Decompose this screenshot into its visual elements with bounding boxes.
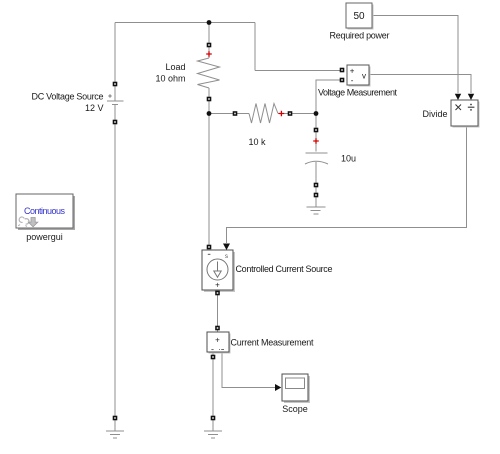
port capacitor top bbox=[314, 128, 319, 133]
svg-text:+: + bbox=[215, 336, 220, 345]
svg-text:Voltage Measurement: Voltage Measurement bbox=[318, 88, 397, 98]
Controlled Current Source block bbox=[202, 250, 235, 292]
Current Measurement block U_I bbox=[207, 332, 231, 354]
wire constant 50 to Divide bbox=[373, 16, 458, 94]
svg-text:powergui: powergui bbox=[26, 232, 63, 242]
port Load bottom bbox=[207, 97, 212, 102]
red polarity plus on 10k bbox=[279, 111, 285, 117]
port 10k left bbox=[233, 111, 238, 116]
port capacitor bottom bbox=[314, 183, 319, 188]
input arrow into Scope bbox=[275, 384, 281, 391]
port VM - bbox=[340, 78, 345, 83]
svg-text:Current Measurement: Current Measurement bbox=[231, 338, 314, 348]
svg-text:Required power: Required power bbox=[330, 31, 390, 41]
svg-text:+: + bbox=[215, 281, 220, 290]
svg-text:Continuous: Continuous bbox=[24, 206, 66, 216]
junction node at load top bbox=[207, 20, 212, 25]
wire top horizontal from DC source to load node and onward to VM + bbox=[115, 23, 340, 71]
svg-text:Scope: Scope bbox=[282, 404, 308, 414]
wire 10k row right lead to cap node bbox=[278, 113, 316, 115]
constant block 50 bbox=[346, 3, 374, 30]
wire CM output to Scope bbox=[222, 352, 275, 388]
resistor R 10k zigzag bbox=[249, 104, 278, 124]
port VM + bbox=[340, 68, 345, 73]
port Load top bbox=[207, 43, 212, 48]
svg-text:DC Voltage Source: DC Voltage Source bbox=[32, 92, 104, 102]
port CM bottom bbox=[211, 355, 216, 360]
port ground G1 bbox=[113, 416, 118, 421]
capacitor C 10u bbox=[305, 153, 328, 164]
wire DC source bottom to left ground bbox=[114, 122, 116, 416]
wire CM minus down to middle ground bbox=[212, 352, 214, 416]
svg-text:50: 50 bbox=[353, 11, 365, 22]
junction node at load bottom / 10k row bbox=[207, 111, 212, 116]
svg-text:s: s bbox=[225, 254, 228, 260]
Divide block bbox=[451, 100, 480, 128]
ground G1 (left, below DC source) bbox=[106, 420, 124, 438]
wire VM output to Divide bbox=[369, 75, 471, 94]
svg-text:10u: 10u bbox=[341, 154, 356, 164]
svg-text:12 V: 12 V bbox=[85, 103, 104, 113]
svg-text:-: - bbox=[351, 76, 354, 85]
port CM top bbox=[215, 326, 220, 331]
wire capacitor bottom lead to ground bbox=[315, 162, 317, 207]
powergui block bbox=[16, 194, 75, 230]
ground G2 (middle, below current measurement) bbox=[204, 420, 222, 438]
svg-text:+: + bbox=[350, 67, 355, 76]
wire Divide output to CCS signal input bbox=[227, 126, 467, 243]
wire load branch vertical upper bbox=[208, 23, 210, 59]
junction node at capacitor top bbox=[314, 111, 319, 116]
resistor Load 10 ohm zigzag bbox=[198, 58, 220, 88]
port DC source top bbox=[113, 82, 118, 87]
port ground G3 bbox=[314, 193, 319, 198]
svg-text:v: v bbox=[362, 72, 366, 81]
svg-text:10 ohm: 10 ohm bbox=[155, 74, 185, 84]
DC source plus sign bbox=[108, 94, 111, 97]
signal input arrow into CCS bbox=[223, 244, 230, 251]
wire CCS bottom to Current Measurement bbox=[217, 290, 219, 332]
port CCS plus (bottom) bbox=[215, 291, 220, 296]
input arrow into Divide divide bbox=[468, 94, 474, 100]
wire 10k row left lead bbox=[209, 113, 249, 115]
Scope block bbox=[282, 374, 310, 403]
red polarity plus on capacitor bbox=[313, 138, 319, 144]
svg-text:Load: Load bbox=[165, 62, 185, 72]
port DC source bottom bbox=[113, 120, 118, 125]
red polarity plus on Load bbox=[206, 51, 212, 57]
Voltage Measurement block U_V bbox=[347, 65, 371, 87]
wire load branch vertical lower down to CCS bbox=[208, 88, 210, 245]
input arrow into Divide x bbox=[455, 94, 461, 100]
svg-text:Controlled Current Source: Controlled Current Source bbox=[236, 264, 333, 274]
wire DC source top lead bbox=[114, 23, 116, 85]
DC voltage source V1 battery symbol bbox=[107, 84, 124, 122]
ground G3 (below capacitor) bbox=[307, 197, 326, 214]
svg-text:Divide: Divide bbox=[422, 109, 447, 119]
wire cap node up to VM minus bbox=[316, 80, 340, 114]
port ground G2 bbox=[211, 416, 216, 421]
wire capacitor top lead bbox=[315, 114, 317, 152]
port CCS minus (top) bbox=[207, 245, 212, 250]
svg-text:10 k: 10 k bbox=[248, 137, 266, 147]
port 10k right bbox=[288, 111, 293, 116]
